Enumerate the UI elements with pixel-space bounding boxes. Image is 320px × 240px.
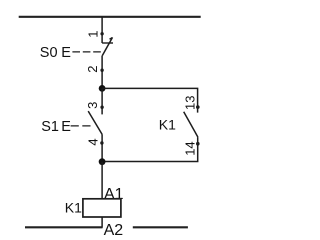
wire: S0 bottom terminal to junction A bbox=[101, 56, 103, 89]
relay coil K1 bbox=[83, 199, 121, 217]
wire: K1 contact bottom to junction B bbox=[102, 137, 198, 161]
svg-text:S1: S1 bbox=[41, 119, 59, 135]
svg-text:2: 2 bbox=[85, 66, 100, 73]
bottom return rail (right segment) bbox=[133, 226, 188, 228]
svg-text:K1: K1 bbox=[65, 200, 82, 216]
S0 actuator dashed link bbox=[72, 51, 102, 53]
relay contact K1 (NO, pins 13-14) bbox=[184, 112, 198, 137]
pushbutton S1 (NO contact, pins 3-4) bbox=[88, 111, 102, 134]
pin 14 bbox=[182, 141, 199, 155]
S1 actuator dashed link bbox=[71, 125, 94, 127]
bottom return rail (left segment) bbox=[25, 226, 103, 228]
wire: junction A to S1 top terminal bbox=[101, 88, 103, 114]
svg-text:14: 14 bbox=[182, 141, 197, 155]
wire: S1 bottom terminal to junction B bbox=[101, 135, 103, 162]
svg-text:1: 1 bbox=[86, 31, 101, 38]
svg-text:E: E bbox=[61, 45, 71, 61]
pin 4 bbox=[86, 138, 104, 145]
top supply rail bbox=[19, 16, 201, 18]
svg-text:13: 13 bbox=[182, 96, 197, 110]
branch wire: junction A to K1 contact top bbox=[102, 88, 198, 112]
wire: junction B to coil A1 bbox=[101, 162, 103, 199]
pushbutton S0 (NC contact, pins 1-2) bbox=[102, 37, 113, 55]
junction node A bbox=[99, 85, 106, 92]
pin 2 bbox=[85, 66, 104, 73]
svg-text:4: 4 bbox=[86, 138, 101, 145]
pin 3 bbox=[85, 102, 104, 109]
svg-text:S0: S0 bbox=[40, 45, 58, 61]
pin 13 bbox=[182, 96, 199, 110]
svg-text:3: 3 bbox=[85, 102, 100, 109]
svg-text:E: E bbox=[61, 119, 71, 135]
wire: top rail to S0 top terminal bbox=[101, 17, 103, 43]
junction node B bbox=[99, 158, 106, 165]
svg-text:A2: A2 bbox=[104, 222, 124, 238]
wire: coil A2 to bottom rail bbox=[101, 217, 103, 228]
svg-text:K1: K1 bbox=[159, 116, 176, 132]
pin 1 bbox=[86, 31, 104, 38]
